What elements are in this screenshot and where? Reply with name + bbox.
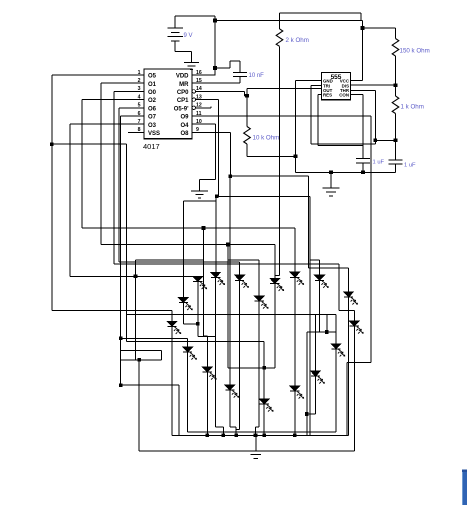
svg-text:O6: O6: [148, 106, 157, 112]
LED D17: [310, 371, 320, 376]
LED D16 cathode wire: [263, 404, 265, 435]
net O5 row to LED17 LED13: [126, 314, 336, 316]
LED D4: [178, 297, 188, 302]
net O7 pin6 wire: [121, 115, 144, 117]
net O0 row to LED12: [114, 263, 339, 265]
wire 555 RES: [318, 94, 322, 96]
node D16 cathode on bus: [262, 434, 266, 438]
svg-text:O7: O7: [148, 115, 157, 121]
svg-text:2 k Ohm: 2 k Ohm: [286, 37, 309, 44]
svg-text:VDD: VDD: [176, 74, 189, 80]
LED D8 cathode wire: [274, 284, 276, 368]
resistor R1 150 k Ohm: [395, 28, 397, 39]
LED D8: [270, 278, 280, 283]
wire parallel link vertical: [160, 351, 162, 360]
wire 555 OUT to CP0: [247, 87, 322, 89]
ground bottom stub: [255, 435, 257, 451]
pin 13 bubble: [192, 98, 195, 101]
node O2 branch: [202, 226, 206, 230]
blue scrollbar fragment: [462, 470, 467, 505]
net O2 row: [82, 227, 295, 229]
svg-text:O0: O0: [148, 90, 157, 96]
net O3 jog to LED14 column: [136, 259, 204, 261]
node D8 cathode join: [262, 366, 266, 370]
LED D12 anode wire: [353, 311, 355, 321]
svg-text:O3: O3: [148, 123, 157, 129]
LED D12 cathode wire: [353, 326, 355, 451]
node D10 cathode join: [305, 412, 309, 416]
capacitor C1 10 nF: [215, 67, 230, 69]
node D14 cathode on bus: [206, 434, 210, 438]
node O3 branch: [134, 275, 138, 279]
svg-text:4017: 4017: [143, 142, 160, 151]
ground below battery: [184, 62, 199, 64]
LED D14 cathode wire: [206, 372, 208, 435]
LED D6 cathode wire: [187, 352, 189, 432]
LED D16: [259, 399, 269, 404]
node O5 branch: [50, 142, 54, 146]
LED D1: [193, 276, 203, 281]
net O5 pin1 wire: [52, 74, 144, 76]
wire pin14 CP0: [196, 90, 245, 92]
svg-text:CON: CON: [339, 93, 349, 98]
svg-text:MR: MR: [179, 82, 189, 88]
LED D10 cathode wire: [318, 280, 320, 332]
capacitor C3 1 uF: [389, 159, 403, 161]
node cap C2 bottom: [361, 171, 365, 175]
LED D9: [290, 272, 300, 277]
wire THR node to chain: [375, 139, 395, 141]
wire battery+ rail vertical: [214, 16, 216, 75]
wire link down to bus B: [138, 360, 140, 451]
LED D10 anode wire: [318, 260, 320, 275]
LED D15: [225, 385, 235, 390]
LED D17 cathode wire: [315, 376, 317, 414]
svg-text:9 V: 9 V: [184, 33, 193, 39]
wire cathode row link: [228, 367, 275, 369]
LED D2 cathode wire: [215, 278, 217, 337]
net O5 row to LED5: [52, 309, 172, 311]
svg-text:O5: O5: [148, 74, 157, 80]
wire 555 THR: [351, 90, 376, 92]
wire link rows: [326, 315, 328, 333]
LED D13 anode wire: [335, 315, 337, 344]
wire pin15 MR: [192, 82, 240, 84]
net CP1 branch path: [217, 195, 310, 197]
LED D9 anode wire: [294, 228, 296, 272]
LED D8 anode wire: [274, 245, 276, 279]
net O8 pin9 wire: [192, 131, 230, 133]
ground bottom: [246, 450, 265, 452]
net O8 row: [230, 175, 308, 177]
net O6 row: [119, 261, 239, 263]
net R2 2k column: [279, 46, 281, 275]
node O7 bottom branch: [119, 383, 123, 387]
node CP1 junction: [215, 195, 219, 199]
node THR junction: [374, 139, 378, 143]
resistor R4 10 k Ohm: [246, 88, 248, 126]
svg-text:CP1: CP1: [177, 98, 189, 104]
LED D7 anode wire: [258, 260, 260, 296]
net O7 bottom row: [121, 384, 179, 386]
node 10nF top: [213, 66, 217, 70]
net O5 branch row to LED16: [126, 341, 264, 343]
LED D5 cathode wire: [171, 327, 173, 436]
cathode bus C: [188, 431, 336, 433]
net O6 drop to LED3: [239, 262, 241, 275]
cathode bus A: [172, 434, 349, 436]
svg-text:O1: O1: [148, 82, 157, 88]
node ground stub on bus: [254, 434, 258, 438]
LED D16 anode wire: [263, 342, 265, 400]
net O4 pin10 wire: [192, 123, 216, 125]
net 2k link to LED8 col: [275, 275, 280, 277]
wire D1 D2 cathode link: [198, 335, 216, 337]
svg-text:10 k Ohm: 10 k Ohm: [253, 135, 280, 142]
wire 555 TRI: [311, 84, 322, 86]
node 10k top junction: [245, 94, 249, 98]
ground under IC: [199, 180, 201, 192]
node D15 cathode on bus: [234, 434, 238, 438]
svg-text:O5-9': O5-9': [174, 106, 189, 112]
LED D18 cathode wire: [294, 391, 296, 435]
svg-text:VSS: VSS: [148, 131, 160, 137]
node O7 branch LED6: [119, 337, 123, 341]
pin 12 bubble: [192, 106, 195, 109]
node link to bus B: [137, 358, 141, 362]
svg-text:CP0: CP0: [177, 90, 189, 96]
node row332 junction: [325, 330, 329, 334]
net O1 row: [101, 244, 275, 246]
wire pin16 VDD: [192, 74, 215, 76]
LED D3 cathode wire: [239, 280, 241, 429]
LED D15 cathode wire: [229, 390, 231, 427]
net O1 pin2 wire: [101, 82, 144, 84]
svg-text:RES: RES: [323, 93, 332, 98]
wire cathode to bus jog: [215, 336, 217, 427]
LED D14: [202, 367, 212, 372]
net O0 pin3 wire: [114, 90, 144, 92]
net O2 branch column to LED14: [203, 228, 205, 336]
net O3 row: [70, 275, 198, 277]
net O9 pin11 wire: [192, 115, 371, 117]
LED D9 to D18 wire: [294, 277, 296, 385]
wire parallel link upper: [121, 350, 162, 352]
LED D6: [182, 347, 192, 352]
net O2 pin4 wire: [82, 99, 144, 101]
svg-text:1 k Ohm: 1 k Ohm: [401, 104, 424, 111]
net CP1 pin13 wire: [196, 99, 219, 101]
LED D11 anode wire: [348, 268, 350, 292]
LED D3: [234, 275, 244, 280]
wire CP1 to LED2 column: [215, 196, 217, 272]
LED D5 anode wire: [171, 310, 173, 321]
IC U1 4017 box: [144, 69, 192, 139]
ground near 555: [330, 172, 332, 188]
net O8 row to LED4: [183, 200, 216, 202]
svg-text:150 k Ohm: 150 k Ohm: [400, 48, 430, 55]
svg-text:1 uF: 1 uF: [404, 163, 416, 169]
cathode bus B: [139, 450, 354, 452]
LED D10: [314, 275, 324, 280]
node 1k bottom junction: [394, 139, 398, 143]
svg-text:O4: O4: [180, 123, 189, 129]
node D7 cathode on bus: [254, 434, 258, 438]
LED D11 cathode wire: [348, 297, 350, 435]
LED D1 cathode wire: [197, 281, 199, 336]
svg-text:10 nF: 10 nF: [249, 73, 265, 79]
wire pin8 VSS stub: [128, 131, 144, 133]
net O3 branch down: [135, 276, 137, 360]
capacitor C2 1 uF: [362, 95, 364, 159]
svg-text:O2: O2: [148, 98, 157, 104]
LED D6 anode wire: [187, 338, 189, 346]
wire 555 CON: [351, 94, 364, 96]
node O8 junction: [229, 174, 233, 178]
svg-text:O8: O8: [180, 131, 189, 137]
LED D4 cathode wire: [182, 303, 184, 324]
net O6 pin5 wire: [119, 107, 144, 109]
net O1 branch to LED7: [227, 245, 229, 368]
node cathode jog on bus: [222, 434, 226, 438]
resistor R2 2 k Ohm: [280, 12, 362, 14]
svg-text:1 uF: 1 uF: [373, 160, 385, 166]
wire top rail to 555 VCC: [215, 20, 363, 22]
op-amp U2 555 timer box: [322, 72, 351, 99]
LED D11: [343, 292, 353, 297]
net O8 to LED4: [182, 201, 184, 297]
node ground stub: [329, 171, 333, 175]
node D1 D4 join: [196, 322, 200, 326]
node DIS junction: [394, 83, 398, 87]
resistor R3 1 k Ohm: [395, 85, 397, 96]
pin 14 bubble: [192, 90, 195, 93]
LED D2: [211, 272, 221, 277]
LED D13: [331, 344, 341, 349]
LED D13 cathode wire: [335, 349, 337, 432]
LED D5: [167, 321, 177, 326]
node D18 cathode on bus: [293, 434, 297, 438]
node battery+ top: [213, 19, 217, 23]
node 10k bottom junction: [294, 155, 298, 159]
battery V1 9V: [175, 15, 215, 17]
LED D17 anode wire: [315, 315, 317, 371]
LED D7 cathode wire: [258, 301, 260, 427]
net O3 pin7 wire: [70, 123, 144, 125]
node VCC rail: [361, 26, 365, 30]
node O1 branch: [226, 243, 230, 247]
wire 10k to GND net: [247, 155, 296, 157]
wire 555 VCC: [351, 80, 363, 82]
net O5 branch wire: [52, 143, 127, 145]
LED D7: [254, 296, 264, 301]
ground bus wire: [296, 171, 396, 173]
net O8 column to LED15: [229, 176, 231, 385]
wire parallel link lower: [121, 359, 162, 361]
wire VCC to 150k: [363, 27, 396, 29]
wire 555 DIS to resistor chain: [351, 84, 396, 86]
LED D18: [290, 386, 300, 391]
LED D12: [349, 321, 359, 326]
net O7 row to LED6: [121, 337, 188, 339]
wire pin12 stub: [196, 107, 212, 109]
svg-text:O9: O9: [180, 115, 189, 121]
wire 555 GND: [296, 80, 322, 82]
